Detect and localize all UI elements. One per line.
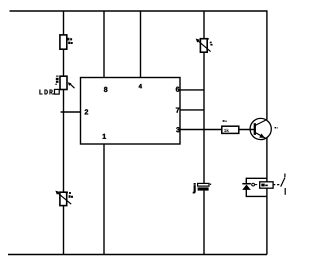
preset VR2 body xyxy=(60,192,67,205)
transistor Q1 label xyxy=(275,127,278,128)
LDR part number vertical label xyxy=(55,76,58,85)
pin 3 label xyxy=(176,127,180,132)
relay coil RLA xyxy=(260,182,273,188)
diode D1 loop top wire xyxy=(246,177,267,179)
preset VR1 wiper arrow xyxy=(196,39,211,52)
wire pin 4 to top rail xyxy=(140,11,142,78)
pin 7 label xyxy=(176,108,179,113)
capacitor C1 polarity dot xyxy=(210,184,211,185)
diode D1 xyxy=(242,184,251,190)
LDR label terminal square xyxy=(55,89,60,94)
relay coil RLA label xyxy=(261,184,268,187)
node marker between diode and coil xyxy=(252,183,258,186)
pin 2 label xyxy=(85,109,88,114)
transistor Q1 xyxy=(250,118,271,139)
pin 8 label xyxy=(104,87,108,92)
wire pin 1 to bottom rail xyxy=(103,144,105,255)
wire diode upper lead xyxy=(245,178,247,184)
wire node to pin 2 xyxy=(61,111,81,113)
LDR body xyxy=(60,76,67,89)
wire pin 7 stub xyxy=(180,109,204,111)
wire LDR down through node to VR2 xyxy=(63,90,65,193)
resistor R3 name label xyxy=(223,120,227,122)
op-amp U1 555 timer body xyxy=(81,78,181,145)
relay contact SW1 xyxy=(281,174,286,195)
wire capacitor to bottom rail xyxy=(203,191,205,255)
wire emitter drop through relay to bottom rail xyxy=(266,137,268,254)
LDR name label xyxy=(39,90,54,95)
wire R2 to LDR xyxy=(63,49,65,76)
wire dashed link to contact xyxy=(273,184,281,186)
wire VR1 down to capacitor xyxy=(203,52,205,183)
wire pin 6 stub xyxy=(180,89,204,91)
wire bottom 0V rail xyxy=(8,254,267,256)
diode D1 loop bottom wire xyxy=(246,195,267,197)
wire top rail to VR1 xyxy=(203,11,205,39)
resistor R3 base resistor xyxy=(222,126,239,133)
wire top supply rail xyxy=(10,10,267,12)
resistor R2 labels xyxy=(67,38,72,44)
pin 1 label xyxy=(103,134,106,139)
resistor R2 xyxy=(60,35,67,49)
preset VR1 body xyxy=(200,39,207,53)
pin 6 label xyxy=(176,87,179,92)
preset VR2 value label xyxy=(69,192,73,198)
capacitor C1 top plate xyxy=(198,183,209,186)
wire right rail collector drop xyxy=(266,10,268,119)
wire pin 3 to base resistor and base xyxy=(180,129,255,131)
wire diode lower lead xyxy=(245,190,247,198)
preset VR1 value label xyxy=(210,42,213,46)
pin 4 label xyxy=(139,84,142,88)
wire pin 8 to top rail xyxy=(103,11,105,78)
capacitor C1 bottom plate xyxy=(198,187,209,190)
capacitor C1 label xyxy=(193,183,195,193)
wire VR2 to bottom rail xyxy=(63,206,65,255)
preset VR2 corner tick xyxy=(66,192,68,194)
LDR light arrow xyxy=(68,82,75,88)
preset VR2 wiper arrow xyxy=(55,191,71,205)
preset VR1 corner tick xyxy=(207,38,209,40)
resistor R3 value label inside xyxy=(224,129,229,132)
wire left branch top to R2 xyxy=(63,11,65,35)
